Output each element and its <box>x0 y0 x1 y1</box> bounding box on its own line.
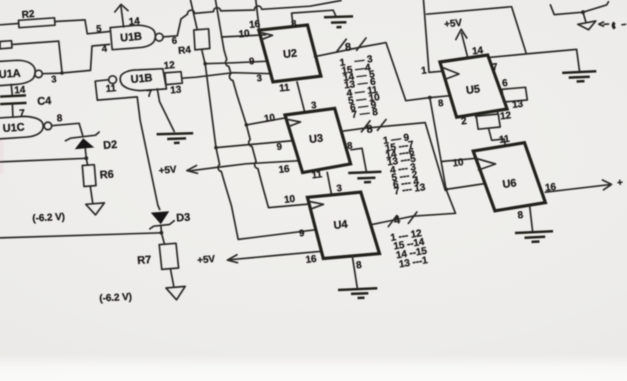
node top right <box>581 10 585 14</box>
svg-text:16: 16 <box>305 254 318 266</box>
arrow annotation end dash <box>622 23 626 26</box>
wire U3 pin9 row <box>216 141 294 148</box>
node D2 junction <box>84 156 88 160</box>
svg-text:3: 3 <box>51 74 57 85</box>
wire U2 pin16 stub <box>256 0 259 30</box>
list2 row 4 <box>386 154 417 169</box>
svg-text:7: 7 <box>492 62 499 74</box>
slash bus 4 right <box>408 212 417 223</box>
wire bus B tap to U2 pin10 <box>222 35 266 37</box>
wire U6 pin8 stub <box>530 205 533 231</box>
wire R2 input from left edge <box>0 24 19 25</box>
arrow -6.2V under R6 <box>86 203 105 215</box>
svg-text:4: 4 <box>393 214 402 227</box>
slash bus 8 first right <box>357 38 366 50</box>
svg-text:5: 5 <box>96 24 103 35</box>
svg-text:(-6.2 V): (-6.2 V) <box>99 292 132 305</box>
jumper box pins 12-13 <box>165 72 183 85</box>
gate U1B first <box>110 25 155 50</box>
node bus A pin9 tap <box>214 146 218 150</box>
svg-text:U5: U5 <box>465 83 480 97</box>
svg-text:2: 2 <box>461 116 468 128</box>
svg-text:10: 10 <box>452 157 465 169</box>
wire U1B pin6 run to top <box>163 1 341 37</box>
list3 row 4 <box>398 255 429 270</box>
arrowhead pin16 <box>603 180 612 190</box>
wire U6 pin16 arrow out <box>545 185 609 193</box>
arrow +5V first <box>187 166 198 174</box>
ground U2 pin8 <box>324 16 353 27</box>
diode D3 zener bar <box>150 221 174 229</box>
svg-text:8: 8 <box>517 210 524 222</box>
list1 row 8 <box>351 107 379 121</box>
svg-text:U4: U4 <box>333 218 349 231</box>
wire U6 pin10 row <box>442 158 476 161</box>
jumper box U5 pins 2-12 <box>476 114 500 129</box>
list1 row 7 <box>350 100 378 114</box>
svg-text:10: 10 <box>238 28 251 40</box>
arrow annotation comma mark <box>613 23 615 29</box>
wire C4 to U1C <box>11 105 14 117</box>
resistor R7 <box>159 243 178 269</box>
node junction pin3 <box>60 71 64 75</box>
jumper box U5 pins 6-13 <box>502 87 527 102</box>
svg-text:C4: C4 <box>37 95 53 108</box>
slash bus 8 second left <box>362 121 371 132</box>
wire U5 pin2 stub <box>475 114 476 117</box>
wire D2 to junction <box>85 149 86 159</box>
svg-text:8: 8 <box>366 123 374 136</box>
list3 row 3 <box>395 246 428 262</box>
list1 row 5 <box>346 85 379 100</box>
wire U1A pin3 output <box>42 72 62 75</box>
IC U6 <box>473 143 545 211</box>
IC U4 <box>307 192 379 258</box>
wire U3 pin8 to ground <box>351 148 366 171</box>
svg-text:8: 8 <box>344 41 351 54</box>
wire to node A junction <box>12 41 62 73</box>
gate U1B second mirrored <box>120 69 166 91</box>
list2 row 8 <box>393 182 426 197</box>
wire pins 12-13 to U2 pin3 <box>182 73 272 79</box>
wire R6 to arrow <box>90 186 93 203</box>
wire +5V to U4 pin16 <box>231 251 322 259</box>
arrow annotation dashes <box>604 23 609 25</box>
svg-text:13: 13 <box>170 85 182 97</box>
wire U1C pin8 to D2 <box>52 123 83 136</box>
svg-text:U1B: U1B <box>120 31 143 45</box>
wire top right run <box>550 2 608 15</box>
svg-text:9: 9 <box>276 141 282 152</box>
svg-text:R2: R2 <box>21 9 35 21</box>
wire R4 junction to U2 pin9 <box>205 61 268 64</box>
clock triangle U3 <box>287 119 301 126</box>
wire drop to connector triangle <box>583 12 586 22</box>
list2 row 5 <box>389 162 417 177</box>
bubble U1B second output <box>109 76 117 84</box>
diode D2 triangle <box>75 138 94 149</box>
node U5 pin8 junction <box>428 96 432 100</box>
wire R7 to arrow <box>171 269 174 286</box>
arrow up pin 14 <box>115 4 128 12</box>
svg-text:1: 1 <box>421 65 428 77</box>
svg-text:3: 3 <box>256 73 262 84</box>
resistor stub at left edge <box>0 41 12 49</box>
wire +5V to U3 pin16 <box>190 161 300 171</box>
svg-text:U1B: U1B <box>130 72 153 86</box>
svg-text:8: 8 <box>56 113 63 124</box>
list2 row 6 <box>391 169 419 184</box>
wire junction to U6 pin13 <box>446 184 485 190</box>
svg-text:8: 8 <box>347 140 354 152</box>
wire junction to left edge <box>0 158 86 162</box>
svg-text:R6: R6 <box>99 169 114 182</box>
svg-text:11: 11 <box>311 169 323 181</box>
list1 row 2 <box>341 62 372 77</box>
svg-text:7: 7 <box>19 108 26 119</box>
bubble U1C output <box>44 122 52 130</box>
list1 row 6 <box>348 92 381 107</box>
diode D2 zener bar <box>66 132 100 141</box>
list1 row 4 <box>344 77 377 92</box>
svg-text:U6: U6 <box>502 177 517 191</box>
svg-text:6: 6 <box>502 78 509 90</box>
list2 row 1 <box>382 132 410 147</box>
wire D3 junction to left edge <box>0 233 161 238</box>
svg-text:R4: R4 <box>178 45 192 57</box>
svg-text:16: 16 <box>545 182 558 194</box>
wire U3 bus slash run <box>342 123 445 189</box>
svg-text:10: 10 <box>263 112 276 124</box>
svg-text:(-6.2 V): (-6.2 V) <box>32 212 65 225</box>
wire R4 top lead <box>191 0 198 30</box>
svg-text:9: 9 <box>249 56 255 67</box>
node bus4 junction <box>444 188 448 192</box>
svg-text:R7: R7 <box>137 254 152 267</box>
arrow -6.2V under R7 <box>166 286 185 299</box>
IC U5 <box>440 55 507 117</box>
wire U5 pin7 run to ground <box>491 49 580 71</box>
IC U3 <box>285 108 351 172</box>
svg-text:13: 13 <box>512 99 525 111</box>
list3 row 1 <box>390 228 423 244</box>
resistor R2 <box>19 18 56 28</box>
connector triangle top right <box>578 21 596 30</box>
svg-text:14: 14 <box>472 45 485 57</box>
gate U1A <box>0 60 35 86</box>
capacitor C4 <box>0 95 27 104</box>
wire U5 pin1 feed <box>424 0 442 72</box>
wire U4 bus slash 4 run <box>371 189 456 224</box>
arrow annotation left arrowhead <box>599 22 604 26</box>
wire D3 to junction <box>160 227 162 233</box>
svg-text:12: 12 <box>500 110 513 122</box>
wire branch from U5 pin1 feed to pin7 run <box>427 7 527 54</box>
bubble U1A output <box>35 70 42 77</box>
svg-text:10: 10 <box>284 194 297 206</box>
svg-text:+5V: +5V <box>197 254 216 267</box>
list3 row 2 <box>393 237 426 253</box>
bubble U1B output <box>155 33 163 41</box>
list2 row 7 <box>392 176 420 191</box>
wire bus A down to U4 pin9 <box>205 64 316 240</box>
resistor R4 <box>194 29 210 50</box>
gate U1C <box>0 116 43 139</box>
svg-text:D3: D3 <box>176 212 191 225</box>
svg-text:+5V: +5V <box>158 164 177 177</box>
wire U1B pin7 to ground <box>157 89 174 132</box>
wire U3 pin10 row <box>246 118 286 125</box>
ground U3 pin8 <box>348 172 381 183</box>
IC U2 <box>259 25 321 82</box>
wire U1B pin11 to D3 <box>95 80 160 210</box>
slash bus 8 second right <box>378 120 387 131</box>
clock triangle U5 <box>443 68 460 80</box>
wire pin 14 power <box>121 7 124 28</box>
wire junction to R7 <box>161 233 164 244</box>
node D3 junction <box>160 231 164 235</box>
wire bus B from top to U4 pin10 <box>216 0 310 208</box>
wire U1A pin14 to C4 <box>11 85 12 96</box>
svg-text:+5V: +5V <box>444 18 463 31</box>
ground U1B pin7 <box>157 133 194 143</box>
clock triangle U2 <box>261 32 273 39</box>
wire R2 to U1B pin5 <box>55 20 110 34</box>
wire U2 pin8 to ground <box>292 10 336 27</box>
wire junction up to U5 pin8 node <box>430 98 446 190</box>
svg-text:U1A: U1A <box>0 68 21 81</box>
wire jumper to U6 pin11 <box>489 128 506 146</box>
slash bus 8 first left <box>337 39 346 51</box>
svg-text:11: 11 <box>105 83 117 95</box>
svg-text:U1C: U1C <box>2 121 25 134</box>
wire R4 bottom lead <box>202 50 205 64</box>
svg-text:U3: U3 <box>309 133 324 146</box>
svg-text:8: 8 <box>356 260 363 272</box>
wire node A to U1B pin4 <box>62 44 110 73</box>
clock triangle U4 <box>310 202 324 209</box>
svg-text:9: 9 <box>299 228 306 240</box>
wire U5 pin12 stub <box>496 111 499 115</box>
list1 row 1 <box>339 54 374 69</box>
wire U4 pin8 to ground <box>352 256 357 288</box>
diode D3 triangle <box>151 211 169 224</box>
svg-text:12: 12 <box>163 60 175 72</box>
arrow +5V second <box>227 255 237 263</box>
list2 row 3 <box>385 147 416 162</box>
arrow +5V third up <box>456 29 467 39</box>
wire U2 pin11 to U3 pin3 <box>297 82 305 113</box>
wire U3 pin11 to U4 pin3 <box>327 172 331 195</box>
svg-text:11: 11 <box>279 82 291 94</box>
list1 row 3 <box>343 69 376 84</box>
svg-text:8: 8 <box>438 98 445 110</box>
clock triangle U6 <box>477 159 496 171</box>
node R4 junction <box>203 62 207 66</box>
svg-text:14: 14 <box>128 16 140 28</box>
svg-text:D2: D2 <box>103 139 118 152</box>
slash bus 4 left <box>388 216 397 227</box>
svg-text:U2: U2 <box>283 48 298 61</box>
svg-text:7 — 8: 7 — 8 <box>351 107 379 121</box>
list2 row 2 <box>384 140 415 155</box>
node bus B pin10 tap <box>245 123 249 127</box>
svg-text:+: + <box>617 177 624 189</box>
svg-text:16: 16 <box>278 164 291 176</box>
ground U6 pin8 <box>515 231 553 242</box>
resistor R6 <box>82 165 96 187</box>
wire U2 bus slash run <box>315 43 451 101</box>
wire junction to R6 <box>86 158 87 165</box>
ground U5 pin7 <box>562 71 596 81</box>
wire U5 pin14 <box>462 33 468 58</box>
ground U4 pin8 <box>338 288 377 298</box>
